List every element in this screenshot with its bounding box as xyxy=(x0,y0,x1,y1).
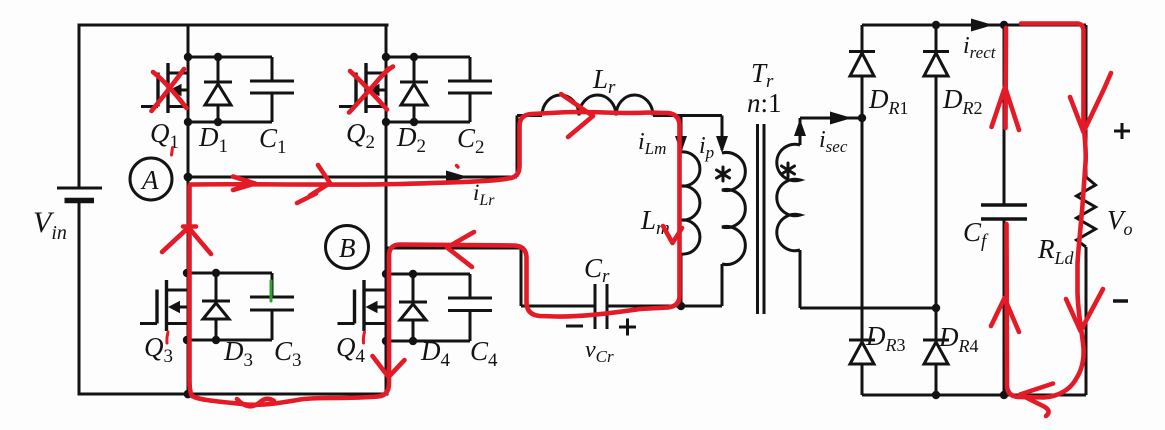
arrow iLr xyxy=(446,171,468,184)
transistor Q4 xyxy=(338,280,387,331)
diode DR3 xyxy=(849,340,875,395)
inductor Lr xyxy=(517,95,722,116)
transistor Q1 xyxy=(141,63,188,113)
arrow iLm xyxy=(675,116,687,154)
diode DR1 xyxy=(849,25,875,342)
svg-text:ip: ip xyxy=(699,133,714,162)
svg-text:Q1: Q1 xyxy=(150,118,179,153)
wire bridge leg 1 xyxy=(187,25,190,394)
wire bridge leg 2 xyxy=(385,25,388,394)
svg-text:D1: D1 xyxy=(198,122,228,157)
red arrowhead on Lm branch xyxy=(663,226,682,243)
red squiggle bottom rail xyxy=(237,399,274,406)
svg-text:iLm: iLm xyxy=(638,129,666,158)
red arrowhead left on output bottom rail xyxy=(1020,384,1053,417)
red current loop output side xyxy=(1007,24,1086,398)
capacitor Cr xyxy=(521,284,722,329)
red prime mark at Q3 xyxy=(167,332,168,343)
junction dots Q4 cell xyxy=(382,270,417,345)
red prime mark at Q4 xyxy=(363,332,364,343)
arrow irect xyxy=(971,19,993,32)
svg-text:DR3: DR3 xyxy=(865,321,906,355)
red X over Q2 xyxy=(349,67,393,113)
red speck above iLr arrow xyxy=(457,166,459,168)
red X over Q1 xyxy=(152,69,187,111)
transformer core xyxy=(758,124,765,314)
red prime mark at Q1 xyxy=(172,148,173,156)
diode DR4 xyxy=(923,340,949,395)
svg-text:A: A xyxy=(140,165,159,195)
svg-text:Tr: Tr xyxy=(751,58,774,92)
svg-text:C1: C1 xyxy=(259,123,287,158)
label plus output xyxy=(1114,123,1130,139)
junction dots Q2 cell xyxy=(382,53,418,126)
svg-text:B: B xyxy=(339,233,356,263)
diode D2 xyxy=(400,57,428,122)
wire left Vin leg upper xyxy=(78,25,81,187)
inductor Lm xyxy=(681,152,700,306)
wire bottom rail xyxy=(79,393,387,396)
svg-text:Vo: Vo xyxy=(1107,205,1133,239)
wire top rail xyxy=(79,24,387,27)
svg-text:Cr: Cr xyxy=(584,253,610,287)
wire secondary bottom to rectifier xyxy=(800,307,937,310)
svg-text:Vin: Vin xyxy=(33,206,67,244)
diode D4 xyxy=(399,274,427,341)
svg-text:RLd: RLd xyxy=(1037,234,1075,268)
arrow isec right xyxy=(830,112,852,125)
red arrowhead down into load top xyxy=(1070,73,1111,132)
capacitor C1 xyxy=(188,57,294,122)
svg-text:iLr: iLr xyxy=(473,180,495,209)
junction dots output rails xyxy=(932,21,1008,399)
svg-text:C2: C2 xyxy=(457,123,485,158)
diode DR2 xyxy=(923,25,949,342)
wire secondary top to rectifier xyxy=(800,117,862,120)
svg-text:isec: isec xyxy=(819,127,848,156)
svg-text:Q3: Q3 xyxy=(144,332,173,367)
transformer T primary lead and arrow ip xyxy=(716,116,728,154)
polarity dot secondary xyxy=(782,163,795,177)
diode D1 xyxy=(204,57,232,122)
transistor Q2 xyxy=(339,63,386,113)
red arrowhead on Lr xyxy=(561,94,593,137)
battery Vin xyxy=(57,188,102,201)
red arrowhead on wire A (large) xyxy=(297,165,330,203)
diode D3 xyxy=(202,273,230,340)
wire node B to tank xyxy=(386,248,521,306)
red arrowhead toward node B xyxy=(447,232,474,267)
red arrowhead on wire A (small) xyxy=(233,177,255,191)
svg-text:Cf: Cf xyxy=(963,217,989,252)
green check mark on C3 xyxy=(270,281,273,301)
red arrowhead up on Cf branch lower xyxy=(991,298,1019,332)
junction dot secondary bottom xyxy=(932,304,940,312)
svg-text:D2: D2 xyxy=(396,122,426,157)
node B xyxy=(326,226,369,269)
arrow isec up xyxy=(794,119,806,136)
svg-text:n:1: n:1 xyxy=(747,88,782,118)
junction dot Lm bottom xyxy=(677,302,685,310)
svg-text:Lr: Lr xyxy=(592,64,616,98)
svg-text:irect: irect xyxy=(963,33,997,62)
svg-text:Q4: Q4 xyxy=(336,332,366,367)
wire left Vin leg lower xyxy=(78,201,81,394)
wire node A to tank xyxy=(188,116,517,178)
capacitor Cf xyxy=(981,25,1027,395)
junction dot isec xyxy=(858,114,866,122)
red stroke up through Cf branch xyxy=(992,28,1020,130)
junction dots Q3 cell xyxy=(183,269,220,344)
capacitor C3 xyxy=(187,273,294,340)
svg-text:DR1: DR1 xyxy=(868,84,909,118)
transformer secondary winding xyxy=(777,118,800,308)
capacitor C4 xyxy=(386,274,492,341)
wire rectifier top rail xyxy=(862,24,1086,27)
svg-text:Q2: Q2 xyxy=(346,118,375,153)
svg-text:C3: C3 xyxy=(274,336,302,371)
polarity dot primary xyxy=(717,167,730,181)
node A xyxy=(130,158,192,200)
svg-text:DR2: DR2 xyxy=(942,84,983,118)
transistor Q3 xyxy=(140,280,187,331)
transformer primary winding xyxy=(722,153,745,307)
red arrowhead down load bottom xyxy=(1066,289,1103,331)
svg-text:vCr: vCr xyxy=(585,337,614,366)
red arrowhead up leg Q3 xyxy=(162,227,211,255)
capacitor C2 xyxy=(386,57,492,122)
svg-text:C4: C4 xyxy=(470,336,498,371)
red arrowhead down leg Q4 xyxy=(373,356,405,377)
junction dots Q1 cell xyxy=(184,53,222,126)
label minus vCr xyxy=(566,325,583,328)
red current loop primary side xyxy=(190,112,680,405)
junction dot bottom rail leg1 xyxy=(184,390,193,399)
label minus output xyxy=(1113,299,1128,303)
resistor RLd xyxy=(1077,25,1096,395)
svg-text:DR4: DR4 xyxy=(938,322,979,356)
label plus vCr xyxy=(619,319,636,336)
wire rectifier bottom rail xyxy=(862,394,1086,397)
